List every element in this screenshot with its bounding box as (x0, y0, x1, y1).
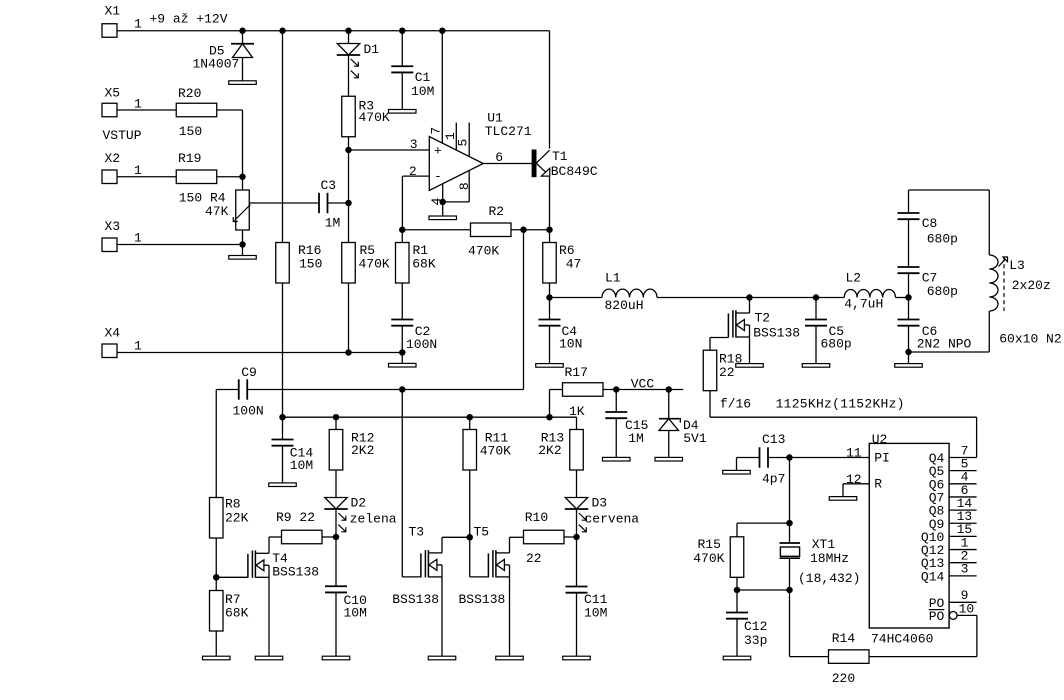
svg-text:2N2 NPO: 2N2 NPO (917, 337, 972, 352)
svg-text:47K: 47K (205, 204, 229, 219)
U2 pin 1 Q12 (949, 549, 977, 551)
wire R13 to D3 (576, 470, 578, 498)
svg-text:10M: 10M (584, 605, 607, 620)
IC U2 74HC4060 (869, 443, 949, 628)
svg-text:1K: 1K (569, 404, 585, 419)
wire U1 pin2 (402, 175, 429, 177)
ground D4 (655, 457, 683, 461)
wire to R13 (576, 417, 578, 429)
svg-text:22: 22 (526, 551, 542, 566)
resistor R14 220 (829, 650, 870, 664)
svg-text:C8: C8 (922, 216, 938, 231)
U1 pin5 stub (468, 123, 470, 157)
node pin3 (345, 147, 352, 154)
svg-text:cervena: cervena (585, 512, 640, 527)
resistor R13 (570, 430, 584, 471)
node C2-X4line (399, 349, 406, 356)
node T2 drain (746, 294, 753, 301)
node rail-C1 (399, 28, 406, 35)
node C3 (345, 200, 352, 207)
svg-text:10M: 10M (411, 84, 434, 99)
wire X3 (117, 244, 243, 246)
svg-text:10M: 10M (290, 458, 313, 473)
wire R15 to XT1 bottom (737, 589, 790, 591)
P0 overline (929, 609, 945, 611)
wire T5 drain up (509, 537, 511, 553)
resistor R19 (176, 170, 217, 184)
U2 pin 9 P0 (949, 601, 977, 603)
resistor R16 (276, 243, 290, 284)
wire down to Q4 pin (976, 417, 978, 457)
U2 pin 13 Q9 (949, 522, 977, 524)
svg-text:2x20z: 2x20z (1012, 278, 1051, 293)
node XT1 bottom (786, 587, 793, 594)
svg-text:T3: T3 (409, 525, 425, 540)
svg-text:5V1: 5V1 (683, 431, 707, 446)
inductor L3 (988, 190, 990, 255)
wire R1 to C2 (401, 283, 403, 320)
svg-text:R6: R6 (559, 243, 575, 258)
svg-text:74HC4060: 74HC4060 (871, 632, 933, 647)
LED D1 (348, 31, 350, 44)
node R11 (467, 414, 474, 421)
U2 pin 5 Q5 (949, 470, 977, 472)
U1 pin4 stub (442, 184, 444, 216)
svg-text:1M: 1M (325, 215, 341, 230)
wire X4 analog ground line (117, 352, 402, 354)
capacitor C12 33p (736, 590, 738, 613)
wire R6 bottom (549, 283, 551, 298)
wire C13 to U2 pin11 (768, 457, 870, 459)
U2 pin 4 Q6 (949, 483, 977, 485)
svg-text:47: 47 (566, 257, 582, 272)
svg-text:470K: 470K (359, 110, 390, 125)
wire X2 to R19 (117, 176, 176, 178)
ground C12 (723, 656, 751, 660)
trimmer R4 47K (236, 190, 250, 230)
svg-text:R8: R8 (225, 497, 241, 512)
wire R20 right (217, 109, 243, 111)
node R19-R4 (239, 174, 246, 181)
transistor T4 BSS138 (251, 551, 253, 578)
wire T3 drain up (441, 537, 443, 553)
wire T3 gate lead (402, 576, 421, 578)
wire R18 down (709, 391, 711, 418)
wire X5 to R20 (117, 109, 176, 111)
capacitor C7 680p (898, 266, 920, 268)
svg-text:5: 5 (456, 139, 471, 147)
capacitor C2 100N (391, 319, 413, 321)
svg-text:U1: U1 (487, 110, 503, 125)
wire rail down to T1 collector (549, 31, 551, 149)
svg-text:VSTUP: VSTUP (103, 128, 142, 143)
connector X1 (102, 24, 117, 38)
svg-text:6: 6 (495, 150, 503, 165)
svg-text:+9 až +12V: +9 až +12V (150, 12, 228, 27)
wire to U1 pin3 (349, 149, 430, 151)
ground X4 line (389, 363, 417, 367)
svg-text:R19: R19 (178, 151, 201, 166)
wire R5 bottom (348, 283, 350, 353)
wire T4 source down (268, 577, 270, 656)
svg-text:T5: T5 (474, 525, 490, 540)
node X3-R4 (239, 241, 246, 248)
resistor R15 (730, 537, 744, 578)
connector X2 (102, 170, 117, 184)
resistor R12 (329, 430, 343, 471)
svg-text:3: 3 (410, 137, 418, 152)
svg-text:4p7: 4p7 (762, 472, 785, 487)
node C15 (613, 386, 620, 393)
svg-text:1: 1 (134, 339, 142, 354)
LED D2 zelena (325, 498, 348, 509)
wire T2 source to ground (749, 337, 751, 364)
svg-text:C13: C13 (762, 432, 785, 447)
wire VCC distribution line (283, 416, 577, 418)
svg-text:D2: D2 (351, 495, 367, 510)
svg-text:220: 220 (832, 671, 855, 686)
wire feedback down to C9 line (523, 230, 525, 390)
ground C15 (603, 457, 631, 461)
node pin2-R1 (399, 227, 406, 234)
svg-text:470K: 470K (693, 551, 724, 566)
svg-text:X3: X3 (105, 219, 121, 234)
wire XT1 bottom to R14 (789, 590, 791, 657)
inductor L1 820uH (602, 289, 657, 297)
node C13-osc (786, 454, 793, 461)
transistor T3 BSS138 (424, 550, 426, 577)
svg-text:1: 1 (134, 97, 142, 112)
svg-text:470K: 470K (480, 443, 511, 458)
wire to L1 (550, 297, 603, 299)
wire R18 to Q4 (710, 416, 977, 418)
node R9-D2-C10 (333, 534, 340, 541)
wire C9 to R8 (215, 390, 217, 498)
svg-text:C12: C12 (744, 619, 767, 634)
svg-text:820uH: 820uH (605, 298, 644, 313)
svg-text:PI: PI (874, 451, 890, 466)
resistor R7 (210, 591, 224, 632)
op-amp U1 TLC271 (429, 137, 483, 191)
resistor R8 (210, 498, 224, 539)
capacitor C5 680p (815, 298, 817, 320)
node R8-R7-T4gate (213, 574, 220, 581)
connector X3 (102, 238, 117, 252)
svg-text:BC849C: BC849C (551, 164, 598, 179)
U2 pin 2 Q13 (949, 562, 977, 564)
wire rail to R16 (282, 31, 284, 243)
svg-text:33p: 33p (744, 633, 767, 648)
svg-text:R16: R16 (298, 243, 321, 258)
ground T3 (428, 656, 456, 660)
svg-text:D3: D3 (592, 495, 608, 510)
wire D1 to R3 (348, 55, 350, 96)
wire to R15 top (737, 522, 790, 524)
node rail-U1pin7 (439, 28, 446, 35)
capacitor C3 1M (318, 193, 320, 213)
resistor R18 (703, 350, 717, 391)
svg-text:X2: X2 (105, 151, 121, 166)
node R5-X4line (345, 349, 352, 356)
wire T2 to C5 (750, 297, 817, 299)
svg-text:10: 10 (959, 601, 975, 616)
wire C6 to L3 bottom (909, 351, 990, 353)
svg-text:L3: L3 (1009, 258, 1025, 273)
svg-text:PO: PO (929, 609, 945, 624)
svg-text:22K: 22K (225, 510, 249, 525)
U2 pin 7 Q4 (949, 457, 977, 459)
svg-text:T1: T1 (552, 149, 568, 164)
node D4 (666, 386, 673, 393)
svg-text:3: 3 (961, 562, 969, 577)
ground C13 (723, 470, 751, 474)
svg-text:TLC271: TLC271 (485, 124, 532, 139)
ground T4 (255, 656, 283, 660)
svg-text:10M: 10M (344, 605, 367, 620)
capacitor C9 100N (216, 389, 239, 391)
U2 pin 3 Q14 (949, 575, 977, 577)
wire R17 left down (549, 390, 551, 418)
node LC input (546, 294, 553, 301)
wire L1 to T2 drain (657, 297, 750, 299)
wire R11 to T3 drain node (469, 470, 471, 537)
svg-text:1: 1 (134, 17, 142, 32)
svg-text:X4: X4 (105, 325, 121, 340)
resistor R6 (543, 243, 557, 284)
svg-text:C7: C7 (922, 270, 938, 285)
wire T4 drain up (268, 537, 270, 553)
wire R19 right (217, 176, 243, 178)
wire R1 top (401, 230, 403, 243)
svg-text:(18,432): (18,432) (798, 571, 860, 586)
ground C10 (322, 656, 350, 660)
node R15-C12 (734, 587, 741, 594)
svg-text:U2: U2 (872, 432, 888, 447)
svg-text:2K2: 2K2 (538, 443, 561, 458)
ground pin12 (829, 497, 857, 501)
ground C6 (895, 364, 923, 368)
svg-text:470K: 470K (359, 257, 390, 272)
resistor R17 1K (563, 383, 604, 397)
L3 core arrow (999, 259, 1006, 266)
wire T3 source down (441, 577, 443, 656)
wire T1 emitter down (549, 176, 551, 230)
svg-text:1M: 1M (628, 431, 644, 446)
node pin4-pin8 (439, 199, 446, 206)
wire C7 to node and C6 (908, 273, 910, 319)
U1 pin1 stub (455, 123, 457, 151)
svg-text:L1: L1 (605, 270, 621, 285)
capacitor C10 10M (335, 537, 337, 586)
ground C14 (269, 483, 297, 487)
wire pin2 down (401, 176, 403, 230)
wire R12 to D2 (335, 470, 337, 498)
ground D5 (229, 81, 257, 85)
connector X5 (102, 103, 117, 117)
wire to R6 (549, 230, 551, 243)
svg-text:60x10 N2: 60x10 N2 (999, 332, 1061, 347)
wire to T3 gate (401, 390, 403, 577)
node R12 (333, 414, 340, 421)
svg-text:R14: R14 (832, 631, 856, 646)
transistor T5 BSS138 (492, 550, 494, 577)
ground C4 (536, 364, 564, 368)
node R11-T3-T5gate (467, 534, 474, 541)
wire R2 right (511, 229, 550, 231)
capacitor C15 1M (615, 390, 617, 413)
wire R3 bottom to R5 (348, 137, 350, 243)
crystal XT1 18MHz (789, 523, 791, 543)
node gate line (399, 386, 406, 393)
capacitor C11 10M (576, 537, 578, 587)
node XT1 top (786, 520, 793, 527)
svg-text:12: 12 (846, 472, 862, 487)
wire R4 bottom (242, 230, 244, 245)
wire R1 top row (402, 229, 470, 231)
svg-text:BSS138: BSS138 (392, 592, 439, 607)
svg-text:10N: 10N (559, 337, 582, 352)
node R10-D3-C11 (573, 534, 580, 541)
svg-text:R2: R2 (489, 204, 505, 219)
wire C9 to feedback node (247, 389, 523, 391)
wire R4 wiper to C3 (249, 202, 319, 204)
R4 wiper arrow (235, 205, 251, 221)
resistor R11 (463, 430, 477, 471)
svg-text:R9 22: R9 22 (276, 510, 315, 525)
U2 pin 10 P0 inverted (949, 612, 957, 620)
wire T2 gate (710, 337, 728, 339)
resistor R3 (342, 96, 356, 137)
node R17 (546, 414, 553, 421)
U2 pin 14 Q8 (949, 509, 977, 511)
svg-text:2K2: 2K2 (351, 443, 374, 458)
svg-text:22: 22 (719, 365, 735, 380)
node C6-L3 (905, 349, 912, 356)
node C5 (813, 294, 820, 301)
resistor R20 (176, 103, 217, 117)
svg-text:150: 150 (179, 124, 202, 139)
svg-text:1: 1 (134, 163, 142, 178)
wire +12V rail (117, 30, 550, 32)
svg-text:7: 7 (428, 127, 443, 135)
L3 adjustable core (1003, 257, 1005, 311)
wire C8 top to L3 top (909, 189, 990, 191)
resistor R5 (342, 243, 356, 284)
svg-text:R: R (874, 477, 882, 492)
ground C5 (802, 364, 830, 368)
svg-text:680p: 680p (821, 337, 852, 352)
svg-text:BSS138: BSS138 (459, 592, 506, 607)
wire pin8 to pin4 (443, 201, 470, 203)
wire C5 to L2 (816, 297, 844, 299)
wire R10 right (564, 536, 577, 538)
svg-text:R15: R15 (698, 537, 721, 552)
wire D3 to R10 node (576, 509, 578, 537)
capacitor C13 4p7 (737, 457, 760, 459)
svg-text:R5: R5 (360, 243, 376, 258)
wire L2 to C7-C6 node (896, 297, 909, 299)
wire osc node down (789, 458, 791, 524)
svg-text:11: 11 (846, 445, 862, 460)
ground T5 (496, 656, 524, 660)
transistor T1 BC849C (532, 150, 536, 177)
svg-text:R1: R1 (413, 243, 429, 258)
svg-text:R20: R20 (178, 86, 201, 101)
capacitor C14 10M (282, 417, 284, 439)
wire down to R19 node (242, 110, 244, 177)
svg-text:18MHz: 18MHz (810, 551, 849, 566)
wire U2 pin12 reset (843, 483, 869, 485)
svg-text:1: 1 (134, 231, 142, 246)
svg-text:C1: C1 (415, 70, 431, 85)
svg-text:X1: X1 (105, 4, 121, 19)
node rail-R16 (279, 28, 286, 35)
wire T5 gate down (469, 537, 471, 577)
wire T5 source down (509, 577, 511, 656)
svg-text:VCC: VCC (631, 377, 655, 392)
ground C11 (563, 656, 591, 660)
svg-text:Q14: Q14 (921, 569, 945, 584)
wire T2 drain lead (749, 298, 751, 314)
ground T2 (736, 364, 764, 368)
resistor R1 (396, 243, 410, 284)
svg-text:150: 150 (299, 257, 322, 272)
resistor R10 22 (524, 530, 565, 544)
ground U1 (429, 216, 457, 220)
node rail-D5 (239, 28, 246, 35)
svg-text:4,7uH: 4,7uH (844, 297, 883, 312)
svg-text:100N: 100N (233, 404, 264, 419)
connector X4 (102, 344, 117, 358)
ground C1 (389, 110, 417, 114)
diode D5 1N4007 (242, 31, 244, 44)
wire D2 to R9 node (335, 509, 337, 537)
svg-text:R17: R17 (565, 365, 588, 380)
svg-text:1125KHz(1152KHz): 1125KHz(1152KHz) (776, 397, 905, 412)
svg-text:BSS138: BSS138 (272, 565, 319, 580)
capacitor C4 10N (549, 298, 551, 320)
zener D4 5V1 (668, 390, 670, 419)
svg-text:-: - (434, 169, 442, 184)
svg-text:100N: 100N (406, 337, 437, 352)
U1 pin8 stub (468, 170, 470, 202)
node C14 (279, 414, 286, 421)
svg-text:8: 8 (457, 182, 472, 190)
svg-text:68K: 68K (412, 257, 436, 272)
svg-text:L2: L2 (846, 270, 862, 285)
ground X3 (229, 256, 257, 260)
node C7-C6 (905, 294, 912, 301)
capacitor C6 2N2 NPO (898, 319, 920, 321)
wire R16 to VCC line (282, 283, 284, 417)
wire U1 pin7 (441, 31, 443, 144)
inductor L2 4,7uH (844, 290, 895, 298)
node rail-D1 (345, 28, 352, 35)
svg-text:470K: 470K (468, 244, 499, 259)
node R2-feedback (520, 227, 527, 234)
U2 pin 15 Q10 (949, 535, 977, 537)
resistor R9 22 (282, 530, 323, 544)
svg-text:R10: R10 (525, 510, 548, 525)
svg-text:BSS138: BSS138 (753, 325, 800, 340)
svg-text:T2: T2 (755, 310, 771, 325)
svg-text:D1: D1 (364, 42, 380, 57)
svg-text:1N4007: 1N4007 (193, 57, 240, 72)
svg-text:+: + (434, 143, 442, 158)
svg-text:XT1: XT1 (812, 537, 836, 552)
wire U1 out to T1 base (483, 163, 532, 165)
LED D3 cervena (565, 498, 588, 509)
